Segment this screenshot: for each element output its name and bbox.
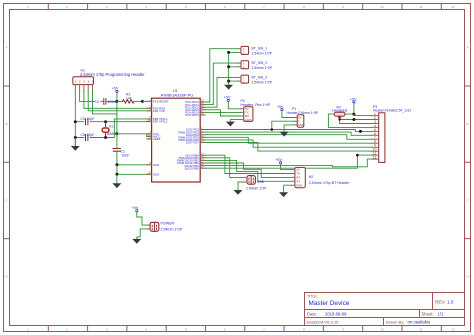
wire trimmer wiper to P3 pin2 and pin3	[340, 119, 372, 124]
svg-text:Sheet:: Sheet:	[422, 311, 434, 316]
svg-text:2.54mm 1*2P: 2.54mm 1*2P	[246, 186, 267, 190]
svg-text:10: 10	[380, 327, 384, 331]
junction P3 pin11 row	[356, 154, 359, 157]
wire BSE pin2 to ground	[238, 182, 244, 190]
wire POWER pin2 to ground	[137, 229, 147, 239]
svg-text:+5V: +5V	[275, 158, 282, 162]
wire PB3 to H2 RX	[205, 163, 291, 177]
svg-text:2.54mm 1*2P: 2.54mm 1*2P	[252, 66, 273, 70]
power flag +5V (reset pull-up rail)	[112, 87, 119, 102]
junction rail / VCC row	[115, 132, 118, 135]
svg-text:2.54mm 1*2P: 2.54mm 1*2P	[252, 52, 273, 56]
wire P4 TX to PC4	[205, 111, 241, 113]
ground P4	[226, 122, 235, 127]
wire H1 pin4 to U1 TXD	[88, 92, 151, 111]
svg-text:ATMEGA328P-PU: ATMEGA328P-PU	[161, 93, 194, 98]
U1 left pin stubs	[147, 101, 152, 174]
U1 left pin names	[153, 100, 169, 177]
svg-text:Master Device: Master Device	[309, 300, 350, 307]
wire +5V to P3 pin1	[354, 114, 371, 116]
wire PB5 to P3 pin11	[205, 155, 376, 168]
svg-text:PD1 TXD: PD1 TXD	[153, 109, 165, 113]
svg-text:2.54mm 1*5p Programming Header: 2.54mm 1*5p Programming Header	[80, 72, 145, 77]
svg-text:2.54mm 1*2P: 2.54mm 1*2P	[252, 80, 273, 84]
junction C3 row left	[74, 120, 77, 123]
wire H1 pin1 to C3/C5/GND rail	[74, 92, 76, 146]
svg-text:+5V: +5V	[131, 206, 138, 210]
wire BT_SW common ground rail	[229, 52, 238, 84]
svg-text:TITLE:: TITLE:	[307, 295, 318, 299]
junction wiper branch	[338, 118, 340, 120]
header P1 (Header2.54mm 1*3P)	[287, 107, 319, 127]
svg-text:GND: GND	[296, 183, 302, 187]
svg-text:GND: GND	[245, 118, 251, 122]
junction X1 top	[104, 120, 107, 123]
junction BT_SW_3 gnd	[227, 80, 230, 83]
junction trimmer / +5V	[352, 113, 355, 116]
svg-text:12: 12	[373, 156, 377, 160]
svg-text:+5V: +5V	[277, 105, 284, 109]
svg-text:GND: GND	[298, 123, 304, 127]
svg-text:GND: GND	[153, 163, 159, 167]
header P4 (Headers Pins 1*4P)	[241, 99, 271, 122]
header POWER (2.54mm 1*2P)	[147, 222, 183, 232]
svg-text:A: A	[5, 46, 7, 50]
wire U1 GND pin22 to rail	[117, 165, 152, 175]
ground H2	[279, 192, 288, 197]
junction BT_SW_1 gnd	[227, 51, 230, 54]
svg-text:BSE: BSE	[257, 180, 265, 184]
junction GND row 8	[115, 163, 118, 166]
svg-text:1/1: 1/1	[438, 311, 444, 316]
wire +5V rail down to VCC row	[116, 101, 118, 133]
resistor R1 10k	[117, 93, 142, 104]
svg-text:mr.vasilakis: mr.vasilakis	[408, 319, 431, 324]
wire PC3 to P4 RX	[205, 110, 241, 116]
svg-text:DIG7 PD7: DIG7 PD7	[186, 141, 199, 145]
capacitor C5 22pF	[81, 133, 95, 141]
svg-text:AREF: AREF	[153, 137, 161, 141]
svg-text:11: 11	[419, 327, 422, 331]
svg-text:16MHz: 16MHz	[106, 132, 117, 136]
svg-text:2.54mm 1*5p BT Header: 2.54mm 1*5p BT Header	[309, 181, 350, 185]
svg-text:BT_SW_2: BT_SW_2	[252, 61, 268, 65]
wire DIG6 to P3 pin9	[205, 140, 371, 147]
power flag +5V for H2	[275, 158, 292, 170]
ground BSE	[234, 190, 243, 195]
header-female P3 (Header-Female2.54_1*12)	[371, 105, 411, 163]
trimmer R2	[328, 105, 354, 118]
junction BT_SW_2 gnd	[227, 65, 230, 68]
svg-text:12: 12	[451, 5, 455, 9]
wire H2 GND to ground	[284, 185, 292, 192]
wire PB4 to P3 pin12	[205, 159, 376, 167]
wire PB1 to BSE pin1	[205, 158, 244, 178]
svg-text:+5V: +5V	[224, 96, 231, 100]
header BT_SW_1	[238, 46, 273, 55]
wire P1 S to DIG2 row	[272, 121, 294, 129]
capacitor C4 100nF	[95, 99, 118, 105]
svg-text:11: 11	[419, 5, 422, 9]
wire H1 pin2 (DTR) to C4	[80, 92, 118, 102]
wire C5 row / XTAL1 jog	[75, 119, 151, 138]
wire BT_SW_3 pin1 to PC2	[205, 77, 238, 107]
wire AREF stub	[149, 138, 152, 140]
svg-text:2.54mm 1*2P: 2.54mm 1*2P	[161, 228, 183, 232]
header BT_SW_3	[238, 75, 273, 84]
svg-text:Date:: Date:	[307, 311, 317, 316]
junction DIG2 / pin5	[359, 130, 362, 133]
svg-text:PC6 RESET: PC6 RESET	[153, 100, 169, 104]
junction R1 / reset wire	[141, 100, 144, 103]
svg-text:+5V: +5V	[112, 87, 119, 91]
op-amp U1 ATMEGA328P-PU (MCU)	[147, 89, 206, 182]
wire DIG7 to P3 pin10	[205, 143, 371, 152]
wire H1 pin5 to +5V rail	[93, 92, 117, 114]
header H2 (2.54mm 1*5p BT Header)	[292, 167, 350, 187]
svg-text:BT_SW_3: BT_SW_3	[252, 75, 268, 79]
svg-text:1.0: 1.0	[447, 300, 454, 305]
svg-text:REV:: REV:	[435, 300, 446, 305]
header BSE (2.54mm 1*2P)	[244, 176, 267, 191]
U1 left pin numbers	[148, 99, 151, 175]
svg-text:PC5 ADC5: PC5 ADC5	[185, 113, 199, 117]
svg-text:10uF: 10uF	[122, 154, 130, 158]
junction C5 row left	[74, 136, 77, 139]
ground under C1	[112, 174, 121, 188]
svg-text:GND: GND	[153, 173, 159, 177]
power flag +5V for POWER	[131, 206, 150, 225]
svg-text:C4: C4	[95, 100, 99, 104]
wire PB2 to H2 ST	[205, 160, 291, 181]
wire VCC/AVCC feed to U1	[117, 134, 152, 137]
svg-text:X1: X1	[109, 125, 113, 129]
svg-text:B: B	[466, 122, 468, 126]
svg-text:H2: H2	[309, 175, 313, 179]
junction X1 bottom	[104, 136, 107, 139]
header H1 (2.54mm 1*5p Programming Header)	[73, 69, 145, 92]
svg-text:Header-Female2.54_1x12: Header-Female2.54_1x12	[373, 109, 411, 113]
junction +5V / reset row	[115, 100, 118, 103]
wire U1 GND pin8 to rail	[117, 164, 152, 166]
svg-text:PB7 XTAL2: PB7 XTAL2	[153, 120, 168, 124]
wire DIG5 to P3 pin8	[205, 137, 371, 143]
U1 right pin names	[177, 100, 199, 170]
svg-text:BT_SW_1: BT_SW_1	[252, 47, 268, 51]
wire H1 pin3 to U1 RXD	[84, 92, 152, 109]
wire reset row to U1 pin1	[142, 100, 151, 102]
svg-text:A: A	[466, 46, 468, 50]
ground POWER	[132, 239, 141, 244]
wire XTAL2 row (C3 row)	[75, 121, 151, 123]
wire BT_SW_1 pin1 to PC0	[205, 49, 238, 102]
capacitor C1 10uF (electrolytic)	[112, 134, 130, 165]
wire P1 GND	[284, 125, 294, 132]
svg-text:POWER: POWER	[161, 222, 175, 226]
svg-text:2018-09-09: 2018-09-09	[325, 311, 347, 316]
junction GND row 22	[115, 173, 118, 176]
ground P1	[280, 132, 289, 137]
svg-text:10: 10	[380, 5, 384, 9]
wire DIG3 to P3 pin6	[205, 132, 371, 135]
wire trimmer left to P3 pin4	[328, 114, 371, 127]
wire BT_SW_2 pin1 to PC1	[205, 63, 238, 105]
wire PB0 to H2 TX	[205, 155, 291, 173]
U1 right pin numbers	[201, 99, 204, 168]
power flag +5V for trimmer	[350, 98, 357, 116]
U1 right pin stubs	[200, 102, 205, 168]
power flag +5V for P1	[277, 105, 295, 118]
svg-text:Drawn By:: Drawn By:	[386, 319, 404, 324]
ground BT_SW rail	[224, 85, 233, 90]
svg-text:EasyEDA V5.3.15: EasyEDA V5.3.15	[307, 319, 340, 324]
junction S / DIG2 row	[271, 128, 274, 131]
ground under C3/C5	[71, 138, 80, 151]
junction rail crossing	[352, 118, 355, 121]
TITLEBLOCK	[305, 293, 465, 326]
svg-text:DIG13 PB5: DIG13 PB5	[185, 166, 200, 170]
header BT_SW_2	[238, 61, 273, 70]
svg-text:12: 12	[451, 327, 455, 331]
wire P4 GND to ground	[230, 120, 240, 122]
capacitor C3 22pF	[81, 117, 95, 125]
wire DIG2 to P3 pin5	[205, 130, 371, 132]
wire DIG4 to P3 pin7	[205, 135, 371, 140]
crystal X1 16MHz	[102, 122, 117, 138]
power flag +5V for P4	[224, 96, 241, 109]
svg-text:B: B	[5, 122, 7, 126]
